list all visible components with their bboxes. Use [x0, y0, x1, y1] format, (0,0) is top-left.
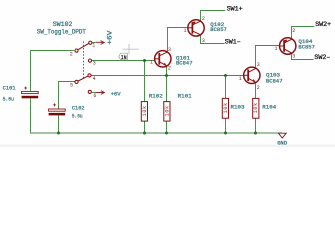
- svg-text:5.6u: 5.6u: [72, 113, 83, 120]
- svg-text:SW102: SW102: [53, 21, 73, 28]
- svg-text:SW_Toggle_DPDT: SW_Toggle_DPDT: [37, 28, 86, 35]
- svg-text:10k: 10k: [142, 106, 148, 117]
- svg-text:10k: 10k: [223, 103, 229, 114]
- svg-text:BC847: BC847: [266, 77, 283, 84]
- svg-text:R101: R101: [178, 93, 193, 100]
- svg-text:10k: 10k: [253, 103, 259, 114]
- svg-text:3: 3: [292, 54, 295, 60]
- svg-text:10k: 10k: [165, 106, 171, 117]
- svg-text:4: 4: [93, 76, 96, 82]
- svg-text:3: 3: [93, 61, 96, 67]
- svg-text:2: 2: [257, 85, 260, 91]
- svg-text:R104: R104: [262, 103, 277, 110]
- svg-text:SW2+: SW2+: [315, 21, 331, 29]
- svg-text:1: 1: [275, 46, 278, 52]
- svg-text:C101: C101: [3, 84, 16, 91]
- svg-text:6: 6: [93, 93, 96, 99]
- svg-text:2: 2: [292, 28, 295, 34]
- svg-text:3: 3: [168, 47, 171, 53]
- svg-text:R103: R103: [231, 103, 246, 110]
- svg-text:+6V: +6V: [111, 90, 121, 97]
- svg-text:IN: IN: [121, 54, 127, 61]
- svg-text:SW1–: SW1–: [225, 38, 241, 46]
- svg-text:1: 1: [150, 59, 153, 65]
- svg-text:2: 2: [70, 51, 73, 57]
- svg-text:1: 1: [239, 76, 242, 82]
- svg-text:1: 1: [184, 28, 187, 34]
- svg-text:BC847: BC847: [176, 60, 193, 67]
- svg-text:R102: R102: [149, 93, 164, 100]
- svg-text:SW1+: SW1+: [227, 5, 243, 13]
- svg-text:GND: GND: [277, 140, 287, 147]
- svg-text:C102: C102: [72, 105, 85, 112]
- svg-text:5: 5: [70, 83, 73, 89]
- svg-text:5.6u: 5.6u: [3, 96, 14, 103]
- svg-text:2: 2: [202, 16, 205, 22]
- svg-text:BC857: BC857: [210, 26, 227, 33]
- svg-text:3: 3: [202, 38, 205, 44]
- svg-text:SW2–: SW2–: [314, 54, 330, 62]
- svg-text:3: 3: [257, 62, 260, 68]
- svg-text:1: 1: [92, 43, 95, 49]
- svg-text:2: 2: [168, 66, 171, 72]
- svg-text:+6V: +6V: [106, 30, 113, 45]
- svg-text:BC857: BC857: [298, 43, 315, 50]
